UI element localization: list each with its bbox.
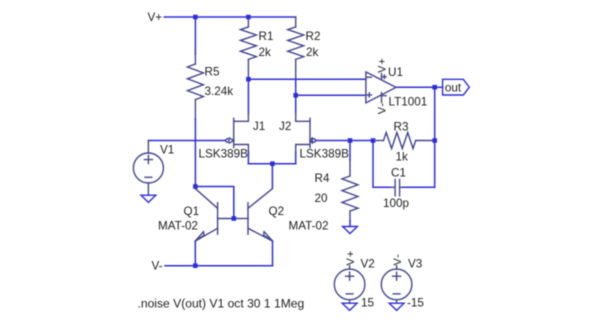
svg-text:out: out [445,81,462,94]
wire R5 top lead [194,17,196,54]
svg-text:J2: J2 [279,120,291,133]
svg-text:LSK389B: LSK389B [199,148,249,161]
svg-text:V+: V+ [148,11,163,24]
svg-text:-15: -15 [407,297,424,310]
wire top rail [164,16,295,18]
junction R2 / noninverting wire [293,93,298,98]
svg-text:MAT-02: MAT-02 [158,220,198,233]
wire noninverting input [296,94,366,96]
resistor R2 [288,17,304,79]
wire V- rail [165,265,273,267]
svg-text:LSK389B: LSK389B [300,148,350,161]
wire V1 to J1 gate [148,140,225,142]
wire source rail [248,163,295,165]
junction C1 left [371,138,376,143]
wire tail to Q2 collector [271,164,273,188]
junction R1 / inverting wire [246,77,251,82]
voltage source V1 [133,141,163,195]
junction Q1 collector node [193,184,198,189]
wire J2 gate to feedback [316,140,373,142]
resistor R4 [342,141,358,227]
resistor R5 [187,54,203,120]
ground (V1) [141,195,156,202]
ground (V3) [389,303,404,310]
svg-text:LT1001: LT1001 [389,96,428,109]
transistor J2 [296,113,316,152]
svg-text:100p: 100p [383,197,410,210]
wire J2 source down [295,152,297,164]
wire R1 bottom to J1 drain [247,79,249,113]
wire inverting input [248,78,366,80]
wire Q1 emitter down [194,241,196,266]
svg-text:Q2: Q2 [269,205,285,218]
resistor R1 [240,17,256,79]
op-amp U1 [366,72,396,103]
svg-text:V+: V+ [377,57,389,73]
svg-text:V2: V2 [361,257,375,270]
svg-text:20: 20 [315,192,329,205]
svg-text:V+: V+ [345,250,357,266]
svg-text:.noise V(out) V1 oct 30 1 1Meg: .noise V(out) V1 oct 30 1 1Meg [138,297,305,311]
junction R4 top [348,138,353,143]
svg-text:Q1: Q1 [184,205,200,218]
svg-text:V1: V1 [160,144,174,157]
node out flag [443,79,470,95]
svg-text:V-: V- [152,260,163,273]
wire output to feedback [434,87,436,187]
svg-text:V-: V- [377,102,389,114]
svg-text:15: 15 [361,297,375,310]
svg-text:3.24k: 3.24k [205,85,234,98]
svg-text:V-: V- [392,253,404,265]
svg-text:V3: V3 [408,257,422,270]
wire R2 node to J2 drain [295,95,297,113]
junction V+ rail / R5 [193,15,198,20]
voltage source V2 [334,266,365,304]
svg-text:R4: R4 [315,172,330,185]
wire R2 bottom to noninverting node [295,79,297,95]
svg-text:R5: R5 [205,66,220,79]
svg-text:MAT-02: MAT-02 [289,220,329,233]
svg-text:R3: R3 [394,120,409,133]
junction output node [432,85,437,90]
ground (R4) [343,227,358,234]
transistor Q2 [234,188,273,241]
wire base to Q1 collector [195,187,233,219]
junction V+ rail / R1 [246,15,251,20]
transistor Q1 [195,187,234,242]
capacitor C1 [373,141,435,196]
junction base node [232,216,237,221]
transistor J1 [226,113,249,152]
ground (V2) [342,303,357,310]
wire R5 bottom to Q1 collector node [194,120,196,187]
wire J1 source down [247,152,249,164]
svg-text:C1: C1 [391,167,406,180]
svg-text:R2: R2 [306,30,321,43]
wire Q2 emitter down [272,241,274,266]
wire op-amp output [396,86,443,88]
svg-text:U1: U1 [388,66,403,79]
svg-text:2k: 2k [306,46,319,59]
svg-text:J1: J1 [253,120,265,133]
voltage source V3 [381,266,412,304]
junction R3 right / feedback [432,138,437,143]
svg-text:1k: 1k [396,151,409,164]
junction JFET sources [270,161,275,166]
junction V- rail / Q1 emitter [193,263,198,268]
svg-text:2k: 2k [259,46,272,59]
resistor R3 [373,133,435,149]
svg-text:R1: R1 [259,30,274,43]
